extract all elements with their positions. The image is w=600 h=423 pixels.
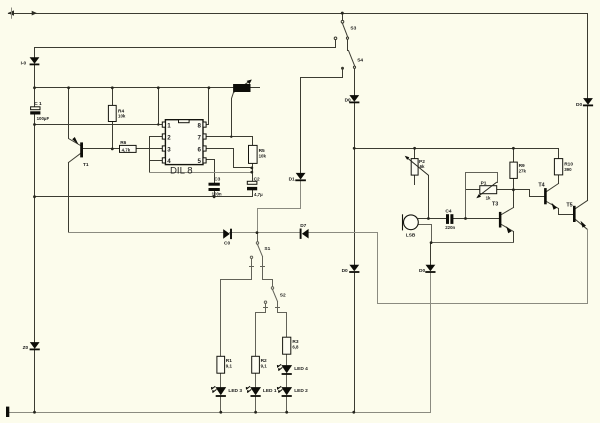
- svg-text:6: 6: [198, 146, 202, 153]
- svg-text:7: 7: [198, 134, 202, 141]
- svg-text:LED 4: LED 4: [294, 366, 308, 372]
- svg-text:LED 3: LED 3: [228, 388, 242, 394]
- svg-text:2: 2: [167, 134, 171, 141]
- svg-text:D0: D0: [419, 268, 425, 274]
- svg-text:100n: 100n: [212, 192, 222, 197]
- svg-text:R6: R6: [120, 140, 126, 146]
- svg-text:1k: 1k: [486, 195, 491, 200]
- svg-text:9,1: 9,1: [226, 363, 233, 368]
- svg-text:3: 3: [167, 146, 171, 153]
- svg-text:D0: D0: [345, 98, 351, 104]
- svg-text:D0: D0: [576, 102, 582, 108]
- svg-text:C0: C0: [224, 240, 230, 246]
- svg-text:DIL 8: DIL 8: [170, 165, 193, 176]
- svg-text:D7: D7: [300, 223, 306, 229]
- svg-text:390: 390: [564, 167, 572, 172]
- svg-text:4,7µ: 4,7µ: [254, 192, 263, 197]
- svg-text:4,7k: 4,7k: [122, 147, 131, 152]
- svg-text:D1: D1: [289, 176, 295, 182]
- svg-text:8: 8: [198, 122, 202, 129]
- svg-text:220n: 220n: [445, 225, 455, 230]
- svg-text:S3: S3: [350, 26, 356, 32]
- svg-text:S4: S4: [357, 58, 363, 64]
- svg-text:C3: C3: [214, 177, 220, 183]
- svg-text:4: 4: [167, 158, 171, 165]
- svg-text:5: 5: [198, 158, 202, 165]
- svg-text:6k: 6k: [420, 164, 425, 169]
- svg-text:10k: 10k: [118, 114, 126, 119]
- svg-text:9,1: 9,1: [261, 363, 268, 368]
- svg-text:C 1: C 1: [34, 101, 42, 107]
- svg-text:27k: 27k: [519, 168, 527, 173]
- svg-text:LED 1: LED 1: [263, 388, 277, 394]
- svg-text:T1: T1: [83, 162, 89, 168]
- svg-text:S1: S1: [264, 246, 270, 252]
- svg-text:T3: T3: [492, 201, 498, 207]
- svg-text:P1: P1: [481, 181, 487, 187]
- svg-text:T4: T4: [538, 182, 544, 188]
- svg-text:10k: 10k: [259, 154, 267, 159]
- svg-text:100µF: 100µF: [37, 116, 50, 121]
- svg-text:Z0: Z0: [23, 345, 29, 351]
- svg-text:C4: C4: [445, 209, 451, 215]
- svg-text:1: 1: [167, 122, 171, 129]
- svg-text:LSB: LSB: [406, 233, 416, 239]
- svg-text:LED 2: LED 2: [294, 388, 308, 394]
- svg-text:6,8: 6,8: [292, 344, 299, 349]
- svg-text:S2: S2: [280, 292, 286, 298]
- svg-text:C2: C2: [254, 177, 260, 183]
- svg-text:D0: D0: [342, 268, 348, 274]
- svg-text:T5: T5: [566, 202, 572, 208]
- svg-text:I-0: I-0: [21, 61, 27, 67]
